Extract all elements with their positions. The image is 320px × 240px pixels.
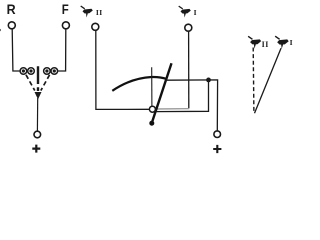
terminal F [62,22,69,29]
svg-text:R: R [7,1,16,17]
terminal R [8,22,15,29]
wire moving-coil bottom [156,80,209,112]
wire terminal II to pivot [96,31,150,110]
needle pivot [149,121,154,126]
svg-text:II: II [262,40,269,49]
edge artifact [0,29,2,32]
svg-text:I: I [194,8,197,17]
flash I symbol right [275,36,289,49]
pointer arrowhead [35,92,42,99]
coil L1 (crossed-coil winding R) [20,68,34,75]
wire F to coil L2 [58,29,66,71]
crossing junction circle [149,106,155,112]
svg-text:I: I [290,38,293,47]
wire moving-coil top: needle to + terminal [166,80,218,131]
flash II symbol top [81,6,93,18]
wire pointer to + terminal [36,98,38,131]
vector I (solid phasor) [255,48,282,113]
scale zero mark [151,67,153,106]
wire fixed-coil right (gray) [155,108,189,110]
terminal + right [214,131,221,138]
pointer shaft (thick dashed) [37,66,39,91]
terminal II [92,23,99,30]
flash II symbol right [248,36,261,48]
terminal + left [34,131,41,138]
vector II (dashed phasor) [252,48,255,113]
polarity + left [32,145,40,153]
needle [152,63,172,123]
wire terminal I down [188,31,190,108]
flash I symbol top [179,6,191,18]
pointer linkage dash left (from coil L1) [26,75,35,91]
svg-text:F: F [62,1,69,17]
pointer linkage dash right (from coil L2) [41,75,50,91]
svg-text:II: II [96,8,103,17]
terminal I [185,24,192,31]
polarity + right [213,145,221,153]
junction dot [206,78,211,83]
coil L2 (crossed-coil winding F) [44,68,58,75]
meter scale arc [112,77,167,91]
wire R to coil L1 [12,29,20,71]
